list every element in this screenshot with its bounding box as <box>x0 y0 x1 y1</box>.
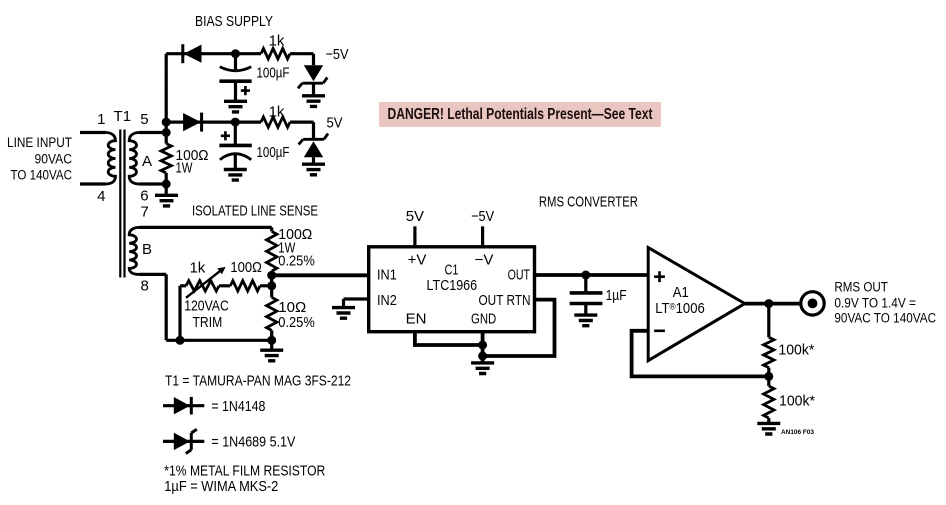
svg-text:1W: 1W <box>176 160 194 177</box>
svg-text:OUT: OUT <box>508 266 530 283</box>
svg-text:LINE INPUT: LINE INPUT <box>7 135 72 150</box>
svg-text:AN106 F03: AN106 F03 <box>781 429 814 436</box>
svg-text:A: A <box>142 153 152 170</box>
svg-text:100Ω: 100Ω <box>230 259 261 276</box>
svg-text:120VAC: 120VAC <box>184 297 229 314</box>
svg-text:100k*: 100k* <box>778 341 814 358</box>
svg-text:= 1N4689 5.1V: = 1N4689 5.1V <box>211 434 295 451</box>
svg-text:6: 6 <box>140 187 148 204</box>
svg-text:5: 5 <box>140 111 148 128</box>
svg-text:LT®1006: LT®1006 <box>655 300 705 317</box>
svg-text:OUT RTN: OUT RTN <box>479 292 531 309</box>
svg-text:7: 7 <box>141 204 149 221</box>
svg-text:0.25%: 0.25% <box>278 253 315 270</box>
svg-text:−5V: −5V <box>471 208 494 225</box>
svg-text:100k*: 100k* <box>779 393 815 410</box>
svg-text:5V: 5V <box>406 208 424 225</box>
svg-text:1: 1 <box>97 111 105 128</box>
svg-text:T1 = TAMURA-PAN MAG 3FS-212: T1 = TAMURA-PAN MAG 3FS-212 <box>165 373 351 390</box>
svg-text:1k: 1k <box>189 260 205 277</box>
svg-text:ISOLATED LINE SENSE: ISOLATED LINE SENSE <box>192 203 318 220</box>
svg-text:8: 8 <box>141 278 149 295</box>
svg-text:DANGER! Lethal Potentials Pres: DANGER! Lethal Potentials Present—See Te… <box>388 106 654 123</box>
svg-text:1µF: 1µF <box>606 287 627 304</box>
svg-text:T1: T1 <box>114 108 132 125</box>
svg-text:= 1N4148: = 1N4148 <box>211 398 265 415</box>
svg-text:GND: GND <box>471 310 496 327</box>
svg-text:90VAC: 90VAC <box>35 152 73 167</box>
svg-text:A1: A1 <box>673 284 689 301</box>
svg-text:LTC1966: LTC1966 <box>427 277 478 294</box>
svg-text:1k: 1k <box>269 104 285 121</box>
svg-text:RMS OUT: RMS OUT <box>834 280 888 295</box>
svg-text:RMS CONVERTER: RMS CONVERTER <box>539 193 638 210</box>
svg-text:B: B <box>142 241 152 258</box>
svg-text:TRIM: TRIM <box>193 314 223 331</box>
svg-text:1k: 1k <box>269 32 285 49</box>
svg-text:5V: 5V <box>327 115 343 132</box>
svg-text:+V: +V <box>408 251 427 268</box>
svg-text:90VAC TO 140VAC: 90VAC TO 140VAC <box>834 311 936 326</box>
svg-text:IN1: IN1 <box>377 266 397 283</box>
svg-text:0.9V TO 1.4V =: 0.9V TO 1.4V = <box>834 295 916 310</box>
svg-text:EN: EN <box>406 310 427 327</box>
svg-text:−5V: −5V <box>326 46 349 63</box>
svg-text:100µF: 100µF <box>257 144 290 161</box>
svg-text:100µF: 100µF <box>257 65 290 82</box>
svg-text:0.25%: 0.25% <box>278 314 315 331</box>
svg-text:*1% METAL FILM RESISTOR: *1% METAL FILM RESISTOR <box>164 463 325 480</box>
svg-text:1µF = WIMA MKS-2: 1µF = WIMA MKS-2 <box>164 478 278 495</box>
svg-text:−V: −V <box>475 251 494 268</box>
svg-text:4: 4 <box>97 188 105 205</box>
svg-text:TO 140VAC: TO 140VAC <box>11 168 73 183</box>
svg-text:IN2: IN2 <box>377 292 397 309</box>
svg-text:BIAS SUPPLY: BIAS SUPPLY <box>195 13 273 30</box>
